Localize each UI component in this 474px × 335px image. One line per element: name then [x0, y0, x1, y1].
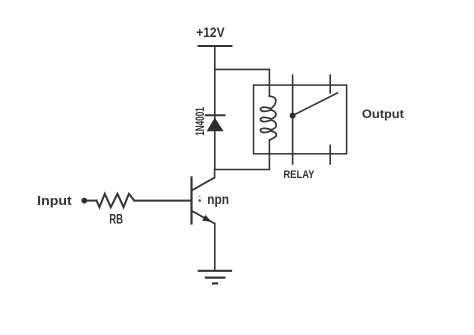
- svg-text:+12V: +12V: [196, 25, 224, 40]
- svg-text:Output: Output: [362, 108, 404, 121]
- svg-text:Input: Input: [37, 193, 72, 208]
- svg-text:npn: npn: [207, 192, 229, 207]
- svg-text:RB: RB: [109, 212, 123, 227]
- svg-text:RELAY: RELAY: [283, 169, 314, 181]
- svg-text:1N4001: 1N4001: [193, 107, 207, 136]
